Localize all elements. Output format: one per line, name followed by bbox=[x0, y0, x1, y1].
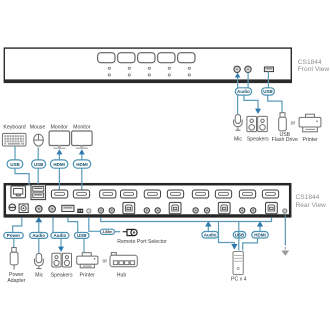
pc4 USB-B port bbox=[266, 202, 278, 213]
pc1 USB-B port bbox=[123, 202, 135, 213]
front panel box bbox=[4, 48, 292, 83]
2.85m cable box bbox=[100, 229, 114, 234]
HDMI inner slots bbox=[55, 193, 276, 196]
wire audio oval to pc bbox=[219, 222, 235, 243]
svg-text:CS1844: CS1844 bbox=[298, 59, 322, 66]
wire console audio bbox=[52, 217, 54, 232]
wire mouse to usb oval bbox=[37, 147, 39, 160]
wire pc down arrow bbox=[231, 243, 237, 250]
speakers icon front bbox=[247, 116, 267, 131]
front USB port bbox=[264, 67, 273, 72]
svg-text:Keyboard: Keyboard bbox=[3, 125, 25, 131]
DC power jack bbox=[19, 204, 28, 213]
wire monitor1 hdmi into panel bbox=[58, 168, 60, 190]
svg-text:USB: USB bbox=[77, 233, 87, 238]
oval HDMI monitor2 bbox=[73, 160, 90, 168]
mouse icon bbox=[34, 134, 44, 146]
wire power adapter bbox=[13, 238, 15, 247]
svg-text:Adapter: Adapter bbox=[7, 278, 25, 284]
svg-text:Mic: Mic bbox=[234, 136, 242, 142]
wire console usb bbox=[68, 217, 78, 232]
console USB-A port bbox=[62, 205, 74, 211]
power adapter icon bbox=[10, 248, 18, 270]
wire printer bbox=[83, 238, 85, 252]
pc2 audio jack bbox=[155, 208, 160, 213]
remote port selector plug icon bbox=[123, 229, 137, 235]
rear view label bbox=[296, 194, 327, 209]
oval HDMI pc bbox=[252, 232, 269, 239]
svg-text:Speakers: Speakers bbox=[247, 136, 269, 142]
hub icon bbox=[110, 253, 137, 267]
wire usb hanger bbox=[238, 222, 240, 251]
oval Audio front bbox=[235, 88, 251, 95]
svg-text:USB: USB bbox=[10, 162, 20, 167]
svg-text:Front View: Front View bbox=[298, 66, 330, 73]
pushbutton row bbox=[98, 53, 195, 63]
svg-text:Monitor: Monitor bbox=[73, 125, 91, 131]
pc1 audio jack bbox=[109, 208, 114, 213]
svg-text:USB: USB bbox=[34, 162, 44, 167]
svg-text:Monitor: Monitor bbox=[50, 125, 68, 131]
front view label bbox=[298, 59, 330, 73]
svg-text:HDMI: HDMI bbox=[76, 162, 88, 167]
svg-text:Printer: Printer bbox=[303, 137, 319, 143]
oval HDMI monitor1 bbox=[50, 160, 67, 168]
rear panel box bbox=[5, 184, 290, 215]
wire hdmi arrow bbox=[257, 221, 263, 231]
wire to speakers icon bbox=[244, 95, 261, 114]
port LEDs bbox=[108, 67, 190, 76]
oval USB keyboard bbox=[7, 160, 23, 168]
grounding screw right bbox=[283, 209, 287, 213]
wire keyboard to usb oval bbox=[14, 146, 16, 160]
wire monitor2 arrow bbox=[79, 149, 85, 160]
svg-text:Power: Power bbox=[7, 233, 21, 238]
pc3 audio jack bbox=[204, 208, 209, 213]
svg-text:USB: USB bbox=[235, 232, 245, 237]
mic icon front bbox=[234, 115, 243, 131]
mic icon bottom bbox=[35, 253, 44, 268]
RJ45 remote port bbox=[11, 186, 26, 198]
wire front usb bbox=[267, 72, 269, 88]
HDMI ports row bbox=[51, 190, 278, 198]
svg-text:or: or bbox=[103, 259, 108, 265]
grounding screw left bbox=[9, 204, 16, 211]
speakers icon bottom bbox=[52, 253, 72, 267]
wire mouse usb into panel bbox=[37, 168, 39, 185]
svg-text:Audio: Audio bbox=[237, 89, 250, 94]
svg-text:USB: USB bbox=[263, 89, 273, 94]
wire front mic bbox=[235, 73, 241, 88]
console dual USB ports bbox=[31, 185, 46, 200]
pc4 audio jack bbox=[251, 208, 256, 213]
pc4 mic jack bbox=[240, 208, 245, 213]
wire remote selector bbox=[89, 217, 101, 231]
svg-text:Hub: Hub bbox=[117, 272, 127, 278]
oval Audio pc bbox=[202, 232, 219, 239]
svg-text:2.85m: 2.85m bbox=[102, 230, 112, 234]
oval USB mouse bbox=[32, 160, 46, 168]
svg-text:or: or bbox=[291, 120, 296, 126]
wire console mic arrow bbox=[35, 217, 42, 233]
wire bus bbox=[100, 221, 272, 223]
mode switch bbox=[77, 209, 83, 213]
wire power bbox=[13, 217, 22, 232]
svg-text:HDMI: HDMI bbox=[53, 162, 65, 167]
pc2 mic jack bbox=[144, 208, 149, 213]
pc3 USB-B port bbox=[218, 202, 230, 213]
wire mic icon bottom bbox=[38, 238, 40, 253]
wire to mic icon bbox=[237, 95, 239, 114]
wire hdmi oval to pc bbox=[243, 238, 258, 251]
wire keyboard usb into panel bbox=[15, 168, 29, 185]
wire to flash drive bbox=[268, 95, 282, 112]
printer icon bottom bbox=[77, 253, 98, 268]
svg-text:Audio: Audio bbox=[54, 233, 67, 238]
pc3 mic jack bbox=[193, 208, 198, 213]
svg-text:Printer: Printer bbox=[80, 272, 96, 278]
oval USB front bbox=[262, 88, 275, 95]
oval Audio mic bbox=[30, 233, 48, 239]
svg-text:PC x 4: PC x 4 bbox=[231, 277, 247, 283]
monitor icon 2 bbox=[72, 131, 93, 149]
wire bus riser left bbox=[100, 217, 102, 221]
pc1 mic jack bbox=[98, 208, 103, 213]
oval USB pc bbox=[233, 232, 246, 239]
wire pc audio arrow bbox=[205, 221, 211, 231]
keyboard icon bbox=[2, 133, 26, 146]
console audio jack bbox=[49, 206, 56, 213]
front speaker jack bbox=[245, 66, 251, 72]
pc2 USB-B port bbox=[169, 202, 181, 213]
svg-text:Speakers: Speakers bbox=[51, 272, 73, 278]
oval Power bbox=[4, 233, 24, 239]
svg-text:Audio: Audio bbox=[32, 233, 45, 238]
wire speakers arrow bottom bbox=[58, 238, 64, 251]
svg-text:Mouse: Mouse bbox=[30, 125, 46, 131]
wire front speaker bbox=[247, 73, 249, 88]
printer icon front bbox=[299, 114, 321, 132]
usb flash drive icon bbox=[279, 113, 287, 131]
grounding wire bbox=[281, 215, 289, 256]
wire monitor2 hdmi into panel bbox=[81, 168, 83, 190]
svg-text:Rear View: Rear View bbox=[296, 202, 327, 209]
svg-text:Mic: Mic bbox=[35, 272, 43, 278]
svg-text:HDMI: HDMI bbox=[254, 232, 266, 237]
wire bus riser right bbox=[271, 217, 273, 221]
svg-text:CS1844: CS1844 bbox=[296, 194, 320, 201]
front mic jack bbox=[234, 66, 240, 72]
svg-text:Flash Drive: Flash Drive bbox=[272, 137, 298, 143]
pc tower icon bbox=[233, 252, 243, 275]
svg-text:Audio: Audio bbox=[204, 232, 217, 237]
wire monitor1 arrow bbox=[56, 149, 62, 160]
oval Audio speakers bbox=[51, 233, 69, 239]
monitor icon 1 bbox=[49, 131, 70, 149]
wire to selector plug bbox=[115, 231, 121, 233]
svg-text:Remote Port Selector: Remote Port Selector bbox=[117, 239, 167, 245]
oval USB printer bbox=[75, 233, 90, 239]
console mic jack bbox=[36, 206, 43, 213]
remote port selector jack bbox=[87, 209, 91, 213]
